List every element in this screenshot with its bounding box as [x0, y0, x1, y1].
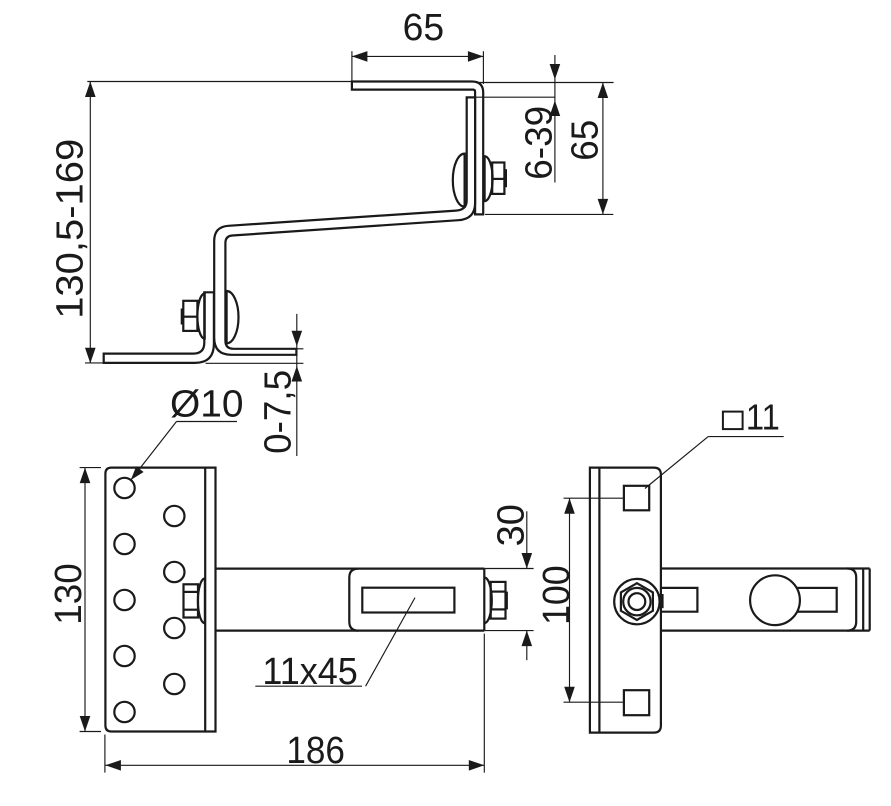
svg-text:11: 11 — [746, 396, 780, 437]
svg-text:100: 100 — [536, 565, 578, 625]
svg-text:Ø10: Ø10 — [170, 384, 244, 426]
svg-text:130: 130 — [48, 563, 90, 625]
svg-text:30: 30 — [491, 504, 533, 546]
svg-text:11x45: 11x45 — [262, 651, 358, 693]
svg-text:186: 186 — [286, 730, 345, 772]
svg-text:65: 65 — [564, 120, 606, 161]
svg-text:65: 65 — [403, 7, 445, 49]
svg-text:0-7,5: 0-7,5 — [257, 370, 299, 454]
svg-text:130,5-169: 130,5-169 — [49, 139, 91, 319]
svg-text:6-39: 6-39 — [519, 106, 561, 180]
